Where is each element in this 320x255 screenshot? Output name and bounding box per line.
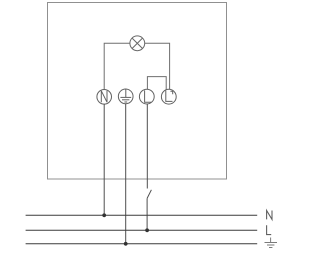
junction dot on L line xyxy=(145,228,149,232)
lamp E1 xyxy=(130,36,145,51)
wire: lamp right to node above L' xyxy=(145,43,170,90)
wire: loop from L up and over to L' xyxy=(147,77,166,90)
terminal PE (earth) xyxy=(118,89,133,104)
wire: switch down to L line xyxy=(146,198,148,230)
wire: L terminal down to switch xyxy=(146,104,148,189)
label L xyxy=(267,225,272,234)
wire: N terminal down to N line xyxy=(103,104,105,215)
device enclosure box xyxy=(48,3,227,180)
terminal N xyxy=(97,90,112,105)
junction dot on PE line xyxy=(124,242,128,246)
wire: PE terminal down to PE line xyxy=(125,104,127,244)
supply line N xyxy=(26,214,258,216)
switch S1 blade xyxy=(147,190,151,199)
terminal L xyxy=(139,89,154,104)
supply line PE xyxy=(26,243,258,245)
junction dot on N line xyxy=(102,213,106,217)
label N xyxy=(267,211,272,220)
label earth symbol xyxy=(265,238,278,248)
terminal L' (switched live) xyxy=(161,89,176,104)
supply line L xyxy=(26,229,258,231)
wire: lamp left to node above N xyxy=(104,43,130,89)
